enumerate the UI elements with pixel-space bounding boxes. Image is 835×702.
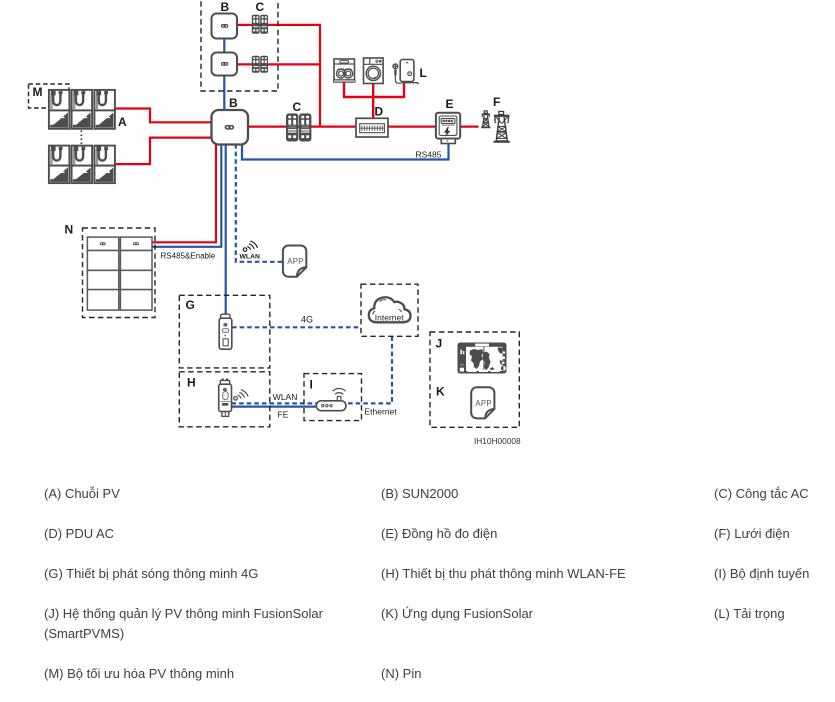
svg-text:I: I [310, 378, 313, 392]
legend row 4 [44, 604, 323, 644]
svg-text:4G: 4G [301, 315, 313, 325]
breaker C1 [252, 15, 268, 34]
svg-text:L: L [420, 66, 427, 80]
ellipsis between PV rows [80, 130, 82, 144]
dashed box N battery [83, 228, 156, 318]
svg-text:D: D [375, 105, 384, 119]
wire: blue inverter B down to 4G dongle G [225, 144, 227, 316]
dashed box Internet [361, 284, 418, 336]
wire: red loads bus [344, 80, 404, 97]
svg-text:WLAN: WLAN [273, 392, 298, 402]
wire: red inverter B to battery N [152, 144, 216, 242]
legend row 3 [44, 564, 258, 584]
label WLAN top [240, 254, 260, 261]
label C top [256, 0, 265, 14]
grid pylon small F [481, 111, 490, 128]
PDU D [356, 118, 388, 137]
svg-text:M: M [33, 85, 43, 99]
legend row 2 [44, 524, 114, 544]
label RS485&Enable [161, 252, 216, 261]
svg-text:H: H [187, 376, 196, 390]
svg-text:A: A [118, 115, 127, 129]
svg-text:Internet: Internet [375, 312, 404, 322]
svg-text:FE: FE [278, 410, 289, 420]
load dishwasher [333, 59, 356, 83]
label F [493, 95, 500, 109]
wire: red B1 to C1 and down to AC junction [236, 25, 320, 127]
svg-text:C: C [256, 0, 265, 14]
label D [375, 105, 384, 119]
breaker C central [286, 113, 311, 141]
wire: blue RS485 meter to inverter B [242, 142, 449, 160]
svg-text:K: K [436, 385, 445, 399]
wire: blue solid FE dongle H to router [232, 406, 317, 408]
label G [186, 298, 195, 312]
router I [316, 389, 346, 411]
PV optimizer+panel unit A1 [49, 90, 70, 129]
battery N stack [87, 237, 152, 310]
load water heater with shower [392, 60, 418, 85]
svg-text:B: B [221, 0, 230, 14]
label L [420, 66, 427, 80]
wire: blue dashed Ethernet cloud to router [346, 336, 392, 403]
PV optimizer+panel unit A2 [72, 90, 93, 129]
label 4G [301, 315, 313, 325]
label WLAN bottom [273, 392, 298, 402]
inverter B1 [212, 14, 238, 39]
inverter B2 [212, 53, 238, 76]
wire: blue inverter B to battery N [152, 144, 221, 247]
breaker C2 [252, 56, 268, 73]
svg-text:Ethernet: Ethernet [365, 407, 398, 417]
dashed box G [179, 295, 269, 368]
legend row 1 [44, 484, 120, 504]
label A [118, 115, 127, 129]
svg-text:G: G [186, 298, 195, 312]
label B top [221, 0, 230, 14]
WLAN signal icon top [243, 241, 257, 252]
svg-text:APP: APP [475, 399, 492, 408]
WLAN signal icon at dongle H [234, 390, 248, 401]
wire: blue B2 to central B [223, 74, 225, 111]
svg-text:F: F [493, 95, 500, 109]
label C central [293, 100, 302, 114]
svg-text:APP: APP [287, 257, 304, 266]
load washing machine [364, 58, 384, 84]
dashed box J/K [430, 332, 519, 427]
Internet cloud [369, 297, 411, 322]
label B central [229, 96, 238, 110]
label Ethernet [365, 407, 398, 417]
svg-text:B: B [229, 96, 238, 110]
APP icon top [283, 246, 306, 277]
wire: red B2 to C2 joining vertical bus [236, 63, 321, 65]
wire: blue dashed WLAN inverter to APP [236, 144, 282, 262]
4G dongle G [219, 314, 232, 349]
WLAN-FE dongle H [219, 379, 232, 417]
svg-text:IH10H00008: IH10H00008 [474, 436, 521, 446]
svg-text:N: N [65, 223, 74, 237]
dashed box I router [304, 374, 362, 421]
PV optimizer+panel unit A4 [49, 146, 70, 184]
svg-text:C: C [293, 100, 302, 114]
label FE [278, 410, 289, 420]
wire: red PV string 1 to inverter B [115, 109, 212, 123]
label E [446, 97, 454, 111]
PV optimizer+panel unit A3 [94, 90, 115, 129]
wire: red loads bus drop washer and to PDU D [372, 82, 374, 120]
FusionSolar APP icon K [471, 387, 494, 418]
inverter B central [212, 110, 249, 145]
legend row 5 [44, 664, 234, 684]
label M [33, 85, 43, 99]
dashed box M optimizer [29, 84, 70, 108]
svg-text:RS485: RS485 [416, 150, 442, 160]
dashed box H [179, 372, 269, 427]
wire: blue B1 to B2 [223, 38, 225, 53]
svg-text:RS485&Enable: RS485&Enable [161, 252, 216, 261]
svg-text:WLAN: WLAN [240, 254, 260, 261]
wire: blue dashed WLAN dongle H to router [232, 402, 317, 404]
wire: blue dashed 4G dongle to Internet [232, 326, 361, 328]
wire: red main AC line B-C-D-E-grid [247, 125, 479, 127]
FusionSolar monitor J [458, 343, 507, 374]
grid pylon large F [494, 111, 510, 141]
svg-text:J: J [436, 337, 443, 351]
PV optimizer+panel unit A6 [94, 146, 115, 184]
label RS485 [416, 150, 442, 160]
label K [436, 385, 445, 399]
label J [436, 337, 443, 351]
label H [187, 376, 196, 390]
label IH10H00008 [474, 436, 521, 446]
label N [65, 223, 74, 237]
label I [310, 378, 313, 392]
wire: red PV string 2 to inverter B [115, 138, 212, 165]
PV optimizer+panel unit A5 [72, 146, 93, 184]
svg-text:E: E [446, 97, 454, 111]
meter E [436, 113, 460, 144]
dashed box: top parallel inverters [201, 0, 278, 91]
